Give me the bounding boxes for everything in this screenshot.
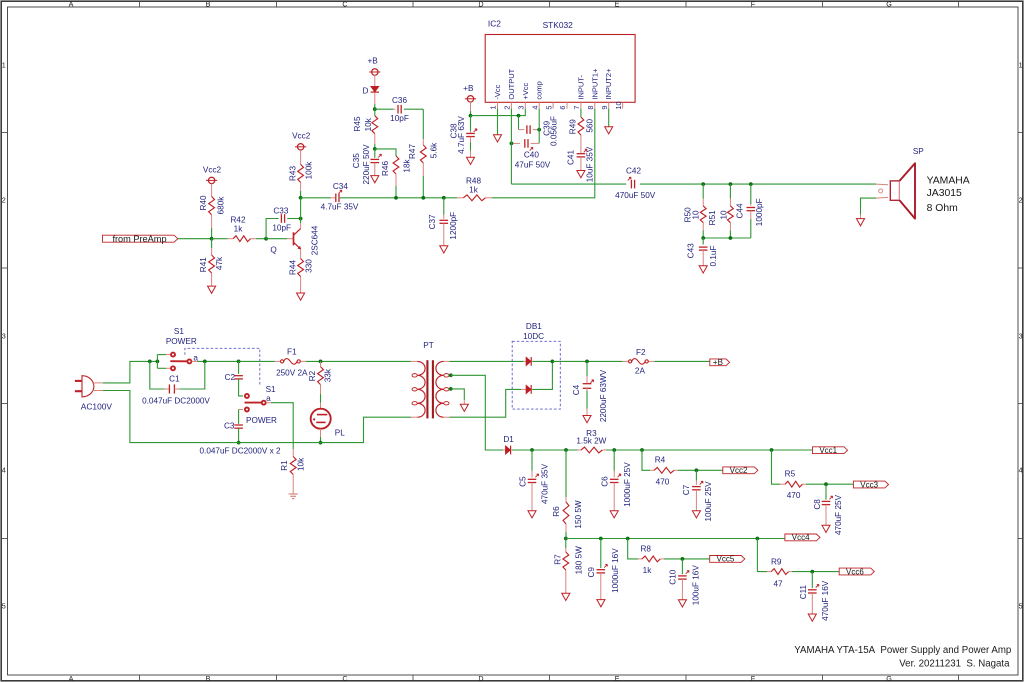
svg-text:a: a xyxy=(266,394,271,403)
svg-text:470: 470 xyxy=(787,491,801,500)
resistor R49 560 xyxy=(580,109,582,117)
svg-text:C40: C40 xyxy=(524,151,539,160)
IC2 pin 5 xyxy=(552,102,554,108)
resistor R8 1k xyxy=(628,539,638,559)
ground below C37 xyxy=(440,246,448,253)
power flag Vcc6 xyxy=(839,568,874,575)
wire R40 to input node xyxy=(211,228,213,239)
resistor R43 100k xyxy=(298,164,304,182)
capacitor C7 100uF 25V xyxy=(695,470,697,480)
junction PL bottom xyxy=(319,441,323,445)
svg-text:POWER: POWER xyxy=(166,337,197,346)
svg-text:9: 9 xyxy=(600,106,609,110)
wire collector vertical xyxy=(300,198,302,219)
svg-text:47k: 47k xyxy=(215,256,224,270)
svg-text:C8: C8 xyxy=(813,499,822,510)
svg-text:C34: C34 xyxy=(333,182,348,191)
capacitor C41 10uF 35V xyxy=(577,153,586,155)
svg-text:R8: R8 xyxy=(640,545,651,554)
svg-text:R51: R51 xyxy=(708,210,717,225)
wire main rail xyxy=(340,197,457,199)
svg-text:Vcc5: Vcc5 xyxy=(717,555,735,564)
wire PT secondary top to DB1 xyxy=(450,360,524,362)
svg-text:Vcc6: Vcc6 xyxy=(846,567,864,576)
resistor R3 1.5k 2W xyxy=(578,449,582,451)
svg-text:YAMAHA YTA-15A Power Supply a: YAMAHA YTA-15A Power Supply and Power Am… xyxy=(794,645,1011,656)
junction R4 branch xyxy=(640,448,644,452)
svg-text:D: D xyxy=(478,0,483,8)
IC2 pin 2 (OUTPUT) xyxy=(510,102,512,108)
wire S1b common to R1 xyxy=(266,402,271,404)
capacitor C5 470uF 35V xyxy=(531,450,533,471)
ground below C7 xyxy=(692,511,700,518)
svg-text:47uF 50V: 47uF 50V xyxy=(515,161,551,170)
capacitor C3 0.047uF xyxy=(239,409,243,411)
svg-text:+Vcc: +Vcc xyxy=(521,82,530,99)
svg-text:-Vcc: -Vcc xyxy=(493,84,502,99)
wire AC neutral bottom rail xyxy=(103,391,411,443)
svg-text:A: A xyxy=(69,674,74,682)
fuse F1 250V 2A xyxy=(275,360,281,362)
IC2 pin 9 (INPUT2+) xyxy=(608,102,610,108)
svg-text:G: G xyxy=(886,674,892,682)
capacitor C33 10pF xyxy=(266,219,279,239)
svg-text:1000pF: 1000pF xyxy=(755,198,764,226)
ground below R7 xyxy=(562,593,570,600)
AC plug P AC100V xyxy=(82,376,94,397)
wire +B rail xyxy=(552,360,622,362)
IC2 pin 10 xyxy=(622,102,624,108)
switch S1a POWER xyxy=(171,353,175,357)
svg-text:R47: R47 xyxy=(408,144,417,159)
svg-text:0.047uF DC2000V x 2: 0.047uF DC2000V x 2 xyxy=(199,446,280,455)
junction R46 rail xyxy=(394,196,398,200)
svg-text:C35: C35 xyxy=(352,153,361,168)
svg-text:33k: 33k xyxy=(324,368,333,382)
ground below C9 xyxy=(597,600,605,607)
junction zobel bottom C43 xyxy=(701,236,705,240)
svg-text:10k: 10k xyxy=(296,457,305,471)
svg-text:SP: SP xyxy=(913,147,924,156)
transistor Q 2SC644 xyxy=(266,238,287,240)
svg-text:100uF 25V: 100uF 25V xyxy=(704,481,713,522)
junction C5 top xyxy=(530,448,534,452)
svg-text:180 5W: 180 5W xyxy=(575,546,584,574)
svg-text:3: 3 xyxy=(517,106,526,110)
svg-text:2: 2 xyxy=(1019,196,1023,205)
junction C11 top xyxy=(810,570,814,574)
svg-text:10DC: 10DC xyxy=(523,332,544,341)
svg-text:1000uF 16V: 1000uF 16V xyxy=(611,548,620,593)
junction PT tap2 xyxy=(449,387,453,391)
resistor R4 470 xyxy=(642,450,650,470)
diode D xyxy=(371,86,379,92)
svg-text:10: 10 xyxy=(614,101,623,109)
resistor R2 33k xyxy=(320,361,322,366)
resistor R50 10 xyxy=(702,184,704,198)
svg-text:AC100V: AC100V xyxy=(81,402,113,412)
svg-text:3: 3 xyxy=(1019,332,1023,341)
svg-text:Vcc2: Vcc2 xyxy=(730,466,748,475)
switch S1b POWER xyxy=(245,394,249,398)
ground below C11 xyxy=(808,614,816,621)
wire speaker return xyxy=(861,198,877,215)
svg-text:10: 10 xyxy=(691,210,700,220)
svg-text:JA3015: JA3015 xyxy=(927,188,962,199)
diode DB1 upper xyxy=(524,360,526,362)
svg-text:POWER: POWER xyxy=(246,416,277,425)
junction R9 branch xyxy=(756,537,760,541)
svg-text:Vcc2: Vcc2 xyxy=(203,166,222,175)
junction R8 branch xyxy=(626,537,630,541)
junction C6 top xyxy=(612,448,616,452)
svg-text:R45: R45 xyxy=(353,116,362,131)
svg-text:C36: C36 xyxy=(392,96,407,105)
svg-text:470uF 35V: 470uF 35V xyxy=(541,463,550,504)
svg-text:F: F xyxy=(751,674,756,682)
capacitor C35 220uF 50V xyxy=(374,149,376,158)
svg-text:560: 560 xyxy=(586,119,595,133)
junction C1 tap xyxy=(148,360,152,364)
svg-text:100k: 100k xyxy=(304,161,313,180)
svg-text:R2: R2 xyxy=(308,370,317,381)
IC2 pin 3 (+Vcc) xyxy=(524,102,526,108)
power symbol Vcc2 (R43) xyxy=(297,144,303,150)
junction C2 top xyxy=(237,360,241,364)
svg-text:4: 4 xyxy=(530,106,539,110)
ground below R41 xyxy=(208,286,216,293)
ground below R44 xyxy=(297,293,305,300)
junction C8 top xyxy=(824,482,828,486)
resistor R48 1k xyxy=(463,195,485,201)
op-amp U IC2 STK032 body xyxy=(485,35,635,103)
junction collector rail xyxy=(299,196,303,200)
junction C1 right xyxy=(203,360,207,364)
svg-text:250V 2A: 250V 2A xyxy=(276,368,308,377)
svg-text:C1: C1 xyxy=(169,374,180,383)
svg-text:DB1: DB1 xyxy=(526,322,542,331)
wire plug hot to switch xyxy=(103,361,157,383)
svg-text:from PreAmp: from PreAmp xyxy=(112,234,166,244)
svg-text:R7: R7 xyxy=(554,554,563,565)
svg-text:C7: C7 xyxy=(682,484,691,495)
svg-text:S1: S1 xyxy=(174,327,184,336)
svg-text:C: C xyxy=(342,674,347,682)
wire rail2 xyxy=(566,538,785,540)
IC2 pin 6 xyxy=(566,102,568,108)
wire S1a common xyxy=(192,360,198,362)
capacitor C8 470uF 25V xyxy=(825,484,827,500)
svg-text:Vcc4: Vcc4 xyxy=(792,533,810,542)
svg-text:D: D xyxy=(363,87,369,96)
svg-text:4: 4 xyxy=(2,466,6,475)
svg-text:8: 8 xyxy=(586,106,595,110)
svg-text:C: C xyxy=(342,0,347,8)
junction D-C36 xyxy=(373,107,377,111)
junction C10 top xyxy=(681,557,685,561)
svg-text:C4: C4 xyxy=(572,384,581,395)
junction C4 top xyxy=(585,360,589,364)
power flag Vcc2 xyxy=(723,467,758,474)
svg-text:R4: R4 xyxy=(655,456,666,465)
resistor R6 150 5W xyxy=(565,450,567,497)
IC2 pin 7 (INPUT-) xyxy=(580,102,582,108)
svg-text:S1: S1 xyxy=(266,385,276,394)
resistor R45 10k xyxy=(374,109,376,116)
wire +B to pin3 +Vcc xyxy=(471,109,526,116)
svg-text:150 5W: 150 5W xyxy=(574,500,583,528)
svg-text:100uF 16V: 100uF 16V xyxy=(691,565,700,606)
svg-text:10pF: 10pF xyxy=(272,223,291,232)
capacitor C2 0.047uF xyxy=(238,361,240,374)
ground below R1 (earth) xyxy=(289,493,298,495)
junction R2 top xyxy=(319,360,323,364)
svg-text:E: E xyxy=(615,0,620,8)
junction C7 top xyxy=(695,468,699,472)
junction input node xyxy=(210,237,214,241)
svg-text:0.056uF: 0.056uF xyxy=(550,116,559,146)
svg-text:INPUT2+: INPUT2+ xyxy=(604,68,613,100)
svg-text:4.7uF 63V: 4.7uF 63V xyxy=(457,116,466,154)
svg-text:5: 5 xyxy=(544,106,553,110)
svg-text:PL: PL xyxy=(335,428,345,437)
svg-text:C3: C3 xyxy=(224,421,235,430)
svg-text:INPUT1+: INPUT1+ xyxy=(590,68,599,100)
junction rail2 left xyxy=(564,537,568,541)
resistor R5 470 xyxy=(772,450,781,484)
svg-text:10k: 10k xyxy=(364,117,373,131)
power flag Vcc3 xyxy=(853,481,888,488)
ground below C43 xyxy=(699,266,707,273)
power flag Vcc1 xyxy=(813,447,848,454)
svg-text:A: A xyxy=(69,0,74,8)
svg-text:1: 1 xyxy=(2,61,6,70)
svg-text:330: 330 xyxy=(305,259,314,273)
svg-text:G: G xyxy=(886,0,892,8)
ground below C5 xyxy=(528,511,536,518)
junction R51 top xyxy=(729,182,733,186)
wire F1 to PT xyxy=(306,360,411,362)
capacitor C38 4.7uF 63V xyxy=(470,116,472,131)
svg-text:Vcc2: Vcc2 xyxy=(292,132,311,141)
capacitor C4 2200uF 63WV xyxy=(586,361,588,376)
svg-text:4: 4 xyxy=(1019,466,1023,475)
svg-text:C33: C33 xyxy=(273,206,288,215)
capacitor C36 10pF xyxy=(375,108,393,110)
svg-text:10pF: 10pF xyxy=(390,114,409,123)
wire to S1a throws xyxy=(156,355,158,369)
svg-text:1200pF: 1200pF xyxy=(449,212,458,240)
capacitor C10 100uF 16V xyxy=(681,559,683,574)
ground below C38 xyxy=(466,157,474,164)
ground below C10 xyxy=(678,600,686,607)
junction R50 top xyxy=(701,182,705,186)
fuse F2 2A xyxy=(623,360,629,362)
junction collector-C33 xyxy=(299,217,303,221)
capacitor C40 47uF 50V xyxy=(511,142,520,144)
capacitor C11 470uF 16V xyxy=(811,572,813,589)
svg-text:+B: +B xyxy=(713,358,723,367)
junction PT tap1 xyxy=(449,373,453,377)
svg-text:R44: R44 xyxy=(288,260,297,275)
resistor R7 180 5W xyxy=(565,539,567,549)
svg-text:2: 2 xyxy=(2,196,6,205)
wire F2 to +B flag xyxy=(654,360,710,362)
junction R6 top xyxy=(564,448,568,452)
mechanical link dashed S1 xyxy=(185,348,260,386)
svg-text:1k: 1k xyxy=(234,224,244,233)
wire zobel bottom xyxy=(703,237,751,239)
svg-text:+B: +B xyxy=(463,84,474,93)
rectifier DB1 10DC dashed box xyxy=(512,341,560,409)
IC2 pin 8 (INPUT1+) xyxy=(594,102,596,108)
capacitor C6 1000uF 25V xyxy=(613,450,615,471)
svg-text:F1: F1 xyxy=(287,348,297,357)
svg-text:4.7uF 35V: 4.7uF 35V xyxy=(321,203,359,212)
wire rail1 xyxy=(512,449,578,451)
wire R48 to INPUT1+ xyxy=(492,109,595,198)
svg-text:B: B xyxy=(206,0,211,8)
svg-text:0.1uF: 0.1uF xyxy=(709,246,718,267)
svg-text:R41: R41 xyxy=(199,257,208,272)
svg-text:6: 6 xyxy=(558,106,567,110)
wire C42 to speaker xyxy=(640,183,876,185)
svg-text:C37: C37 xyxy=(428,214,437,229)
svg-text:470uF 50V: 470uF 50V xyxy=(615,191,656,200)
junction C9 top xyxy=(599,537,603,541)
wire rail1 right xyxy=(606,449,813,451)
svg-text:+B: +B xyxy=(367,56,378,65)
ground below C35 xyxy=(371,176,379,183)
svg-text:Q: Q xyxy=(270,245,276,254)
resistor R46 18k xyxy=(375,149,396,156)
ground below IC2 pin1 xyxy=(497,109,499,135)
junction C40-OUTPUT xyxy=(510,142,514,146)
svg-text:STK032: STK032 xyxy=(543,20,574,30)
svg-text:10: 10 xyxy=(720,210,729,220)
svg-text:R40: R40 xyxy=(199,195,208,210)
svg-text:8 Ohm: 8 Ohm xyxy=(927,203,958,214)
resistor R9 47 xyxy=(757,539,767,572)
svg-text:5: 5 xyxy=(1019,602,1023,611)
capacitor C39 0.056uF xyxy=(518,116,520,130)
wire pin4 comp vertical xyxy=(538,109,540,144)
capacitor C34 4.7uF 35V xyxy=(301,197,331,199)
ground below C4 xyxy=(583,416,591,423)
input global label "from PreAmp" xyxy=(103,235,178,242)
svg-text:C9: C9 xyxy=(587,567,596,578)
junction pin4 comp node xyxy=(537,128,541,132)
capacitor C44 1000pF xyxy=(750,184,752,204)
svg-text:1.5k 2W: 1.5k 2W xyxy=(576,437,606,446)
svg-text:INPUT-: INPUT- xyxy=(576,75,585,100)
power symbol Vcc2 (R40) xyxy=(208,177,214,183)
svg-text:1: 1 xyxy=(1019,61,1023,70)
svg-text:D: D xyxy=(478,674,483,682)
ground below C6 xyxy=(610,511,618,518)
wire PT tap1 to D1 rail xyxy=(451,375,503,450)
resistor R40 680k xyxy=(209,197,215,215)
svg-text:0.047uF DC2000V: 0.047uF DC2000V xyxy=(142,396,210,405)
ground below speaker xyxy=(856,219,864,226)
svg-text:R9: R9 xyxy=(771,558,782,567)
svg-text:C6: C6 xyxy=(600,476,609,487)
svg-text:PT: PT xyxy=(423,341,433,350)
svg-text:C43: C43 xyxy=(686,243,695,258)
svg-text:3: 3 xyxy=(2,332,6,341)
svg-text:2SC644: 2SC644 xyxy=(310,225,319,255)
svg-text:C5: C5 xyxy=(518,476,527,487)
svg-text:470uF 25V: 470uF 25V xyxy=(834,494,843,535)
svg-text:YAMAHA: YAMAHA xyxy=(927,175,970,186)
ground below C8 xyxy=(822,525,830,532)
capacitor C37 1200pF xyxy=(442,196,446,200)
svg-text:IC2: IC2 xyxy=(488,18,501,28)
svg-text:R6: R6 xyxy=(552,506,561,517)
svg-text:680k: 680k xyxy=(216,196,225,215)
capacitor C1 0.047uF DC2000V xyxy=(150,361,165,389)
svg-text:R43: R43 xyxy=(288,166,297,181)
svg-text:R48: R48 xyxy=(466,177,481,186)
junction base node xyxy=(264,237,268,241)
svg-text:18k: 18k xyxy=(402,158,411,172)
junction R5 branch xyxy=(770,448,774,452)
svg-text:OUTPUT: OUTPUT xyxy=(507,68,516,99)
svg-text:470: 470 xyxy=(656,478,670,487)
IC2 pin 4 (comp) xyxy=(538,102,540,108)
resistor R51 10 xyxy=(729,184,731,198)
junction +B node xyxy=(469,114,473,118)
svg-text:10uF 35V: 10uF 35V xyxy=(586,146,595,182)
diode DB1 lower xyxy=(521,388,526,390)
svg-text:C44: C44 xyxy=(736,203,745,218)
wire OUTPUT to C42 xyxy=(511,183,626,185)
junction C39 tap xyxy=(517,114,521,118)
svg-text:R49: R49 xyxy=(568,119,577,134)
junction DB1 output xyxy=(551,360,555,364)
resistor R47 5.6k xyxy=(422,109,424,139)
svg-text:R1: R1 xyxy=(280,460,289,471)
svg-text:47: 47 xyxy=(773,580,783,589)
svg-text:1k: 1k xyxy=(643,566,653,575)
svg-text:2: 2 xyxy=(503,106,512,110)
svg-text:R46: R46 xyxy=(381,161,390,176)
junction zobel bottom R51 xyxy=(729,236,733,240)
svg-text:5: 5 xyxy=(2,602,6,611)
svg-text:2200uF 63WV: 2200uF 63WV xyxy=(599,369,608,422)
svg-text:470uF 16V: 470uF 16V xyxy=(821,580,830,621)
resistor R1 10k xyxy=(292,449,294,457)
svg-text:comp: comp xyxy=(535,81,544,99)
svg-text:1k: 1k xyxy=(469,185,479,194)
svg-text:7: 7 xyxy=(572,106,581,110)
svg-text:1: 1 xyxy=(489,106,498,110)
svg-text:F: F xyxy=(751,0,756,8)
svg-text:1000uF 25V: 1000uF 25V xyxy=(623,462,632,507)
junction C3 bottom xyxy=(237,441,241,445)
junction R45-C35 xyxy=(373,147,377,151)
speaker SP YAMAHA JA3015 xyxy=(876,183,888,186)
capacitor C42 470uF 50V xyxy=(630,180,632,189)
junction S1a throws tap xyxy=(156,360,160,364)
junction C44 top xyxy=(749,182,753,186)
svg-text:C41: C41 xyxy=(566,150,575,165)
ground below C41 xyxy=(577,171,585,178)
svg-text:R5: R5 xyxy=(785,470,796,479)
svg-text:5.6k: 5.6k xyxy=(430,142,439,158)
svg-text:B: B xyxy=(206,674,211,682)
svg-text:Vcc1: Vcc1 xyxy=(819,446,837,455)
